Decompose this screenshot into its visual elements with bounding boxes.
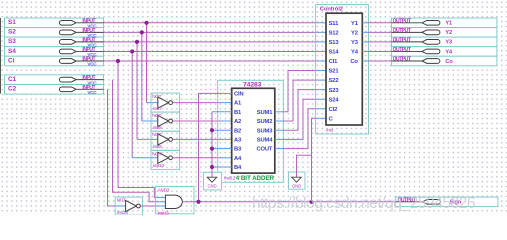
svg-text:Y4: Y4 xyxy=(445,49,453,55)
svg-text:OUTPUT: OUTPUT xyxy=(393,47,411,53)
svg-text:S3: S3 xyxy=(8,38,16,45)
svg-text:Y2: Y2 xyxy=(445,30,452,36)
svg-text:S1: S1 xyxy=(8,19,16,26)
svg-text:Co: Co xyxy=(445,59,453,65)
svg-text:SUM1: SUM1 xyxy=(257,110,273,116)
svg-text:B1: B1 xyxy=(234,110,242,116)
svg-text:A1: A1 xyxy=(234,101,242,107)
svg-text:S22: S22 xyxy=(329,78,339,84)
svg-text:A4: A4 xyxy=(234,156,242,162)
svg-text:VCC: VCC xyxy=(87,62,97,67)
svg-text:SUM4: SUM4 xyxy=(257,138,273,144)
svg-text:GND: GND xyxy=(207,184,216,189)
svg-text:inst14: inst14 xyxy=(117,210,129,215)
svg-text:CI1: CI1 xyxy=(329,59,338,65)
svg-text:COUT: COUT xyxy=(256,147,272,153)
svg-text:Control2: Control2 xyxy=(320,7,343,13)
svg-text:OUTPUT: OUTPUT xyxy=(393,28,411,34)
svg-text:AND3: AND3 xyxy=(158,188,170,193)
svg-text:Y1: Y1 xyxy=(445,21,452,27)
svg-text:OUTPUT: OUTPUT xyxy=(393,37,411,43)
svg-text:S12: S12 xyxy=(329,30,339,36)
svg-text:74283: 74283 xyxy=(243,82,262,89)
svg-text:NOT: NOT xyxy=(152,94,161,99)
svg-text:NOT: NOT xyxy=(152,113,161,118)
svg-text:VCC: VCC xyxy=(87,90,97,95)
svg-text:Y1: Y1 xyxy=(351,21,359,27)
svg-text:B4: B4 xyxy=(234,165,242,171)
svg-text:S23: S23 xyxy=(329,88,340,94)
svg-text:Co: Co xyxy=(350,59,358,65)
svg-text:Ci: Ci xyxy=(8,57,15,64)
svg-text:S4: S4 xyxy=(8,48,16,55)
svg-text:CI2: CI2 xyxy=(329,107,338,113)
svg-text:Y2: Y2 xyxy=(351,30,358,36)
svg-text:inst12: inst12 xyxy=(224,175,236,180)
svg-text:S14: S14 xyxy=(329,50,340,56)
svg-text:S2: S2 xyxy=(8,29,16,36)
svg-text:A2: A2 xyxy=(234,119,241,125)
svg-text:B2: B2 xyxy=(234,128,241,134)
svg-text:A3: A3 xyxy=(234,138,242,144)
svg-text:SUM2: SUM2 xyxy=(257,119,273,125)
svg-text:S24: S24 xyxy=(329,97,340,103)
svg-text:SUM3: SUM3 xyxy=(257,128,273,134)
svg-text:C1: C1 xyxy=(8,76,17,83)
svg-text:https://blog.csdn.net/qq_25945: https://blog.csdn.net/qq_25945826 xyxy=(252,195,475,212)
svg-text:CIN: CIN xyxy=(234,92,244,98)
svg-text:Y3: Y3 xyxy=(351,40,359,46)
svg-text:inst8: inst8 xyxy=(153,125,162,130)
svg-text:C2: C2 xyxy=(8,86,17,93)
svg-text:S11: S11 xyxy=(329,21,339,27)
svg-text:inst9: inst9 xyxy=(153,144,162,149)
svg-text:inst15: inst15 xyxy=(158,210,170,215)
svg-text:NOT: NOT xyxy=(117,197,126,202)
svg-text:OUTPUT: OUTPUT xyxy=(393,57,411,63)
svg-text:inst: inst xyxy=(326,127,333,132)
svg-text:S21: S21 xyxy=(329,69,340,75)
svg-text:inst10: inst10 xyxy=(153,163,165,168)
svg-text:Y4: Y4 xyxy=(351,50,359,56)
svg-text:Y3: Y3 xyxy=(445,40,452,46)
svg-text:NOT: NOT xyxy=(152,132,161,137)
svg-text:S13: S13 xyxy=(329,40,340,46)
svg-text:B3: B3 xyxy=(234,147,242,153)
svg-text:inst7: inst7 xyxy=(153,106,162,111)
svg-text:NOT: NOT xyxy=(152,151,161,156)
svg-text:4 BIT ADDER: 4 BIT ADDER xyxy=(236,175,275,182)
svg-text:OUTPUT: OUTPUT xyxy=(393,18,411,24)
svg-text:GND: GND xyxy=(292,184,301,189)
